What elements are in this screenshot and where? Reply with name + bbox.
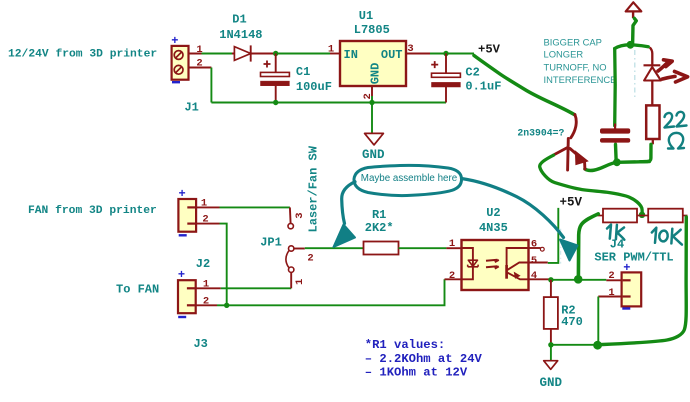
LED branch top lead	[650, 48, 653, 66]
handwritten 1k	[607, 225, 624, 240]
bubble arrowhead at R1	[334, 225, 356, 248]
capacitor (hand drawn) top lead nub	[614, 124, 616, 129]
connector J4 body	[622, 272, 642, 306]
power arrow symbol (hand circuit supply)	[626, 2, 642, 11]
svg-text:+: +	[178, 187, 185, 201]
svg-text:+: +	[171, 34, 178, 48]
U2 pin 6 stub with open circle	[529, 247, 545, 251]
wire JP1.2 to R1	[305, 247, 364, 249]
JP1 pin 1	[289, 267, 294, 288]
svg-text:+5V: +5V	[559, 195, 582, 209]
J3 pin 1 stub	[196, 287, 221, 289]
dash-dot guide line small	[560, 229, 562, 264]
J4 pin 1 stub	[598, 296, 621, 298]
wire U1 GND pin down to rail	[371, 96, 373, 103]
LED (hand drawn, pointing up)	[644, 65, 661, 80]
svg-text:U2: U2	[486, 206, 500, 220]
svg-text:+5V: +5V	[478, 43, 501, 57]
transistor emitter arrow (filled)	[576, 152, 588, 165]
J2 pin 2 stub	[196, 223, 219, 225]
svg-text:+: +	[178, 268, 185, 282]
junction U1 GND on rail	[369, 100, 374, 105]
resistor bottom lead	[652, 139, 654, 144]
U2 internal phototransistor	[507, 248, 529, 279]
capacitor C1	[261, 54, 290, 103]
svg-text:Laser/Fan SW: Laser/Fan SW	[307, 145, 321, 232]
svg-text:Maybe assemble here: Maybe assemble here	[361, 173, 458, 184]
svg-text:GND: GND	[539, 376, 562, 390]
diode D1	[232, 45, 276, 61]
dash-dot guide line	[634, 50, 636, 99]
capacitor (hand drawn) plate bottom	[600, 138, 630, 143]
junction C1 bottom on rail	[273, 100, 278, 105]
wire supply stem (hand)	[633, 18, 637, 45]
svg-text:100uF: 100uF	[296, 80, 332, 94]
wire cap bottom lead (hand)	[614, 145, 618, 163]
J2 minus mark	[179, 234, 187, 236]
svg-text:2K2*: 2K2*	[365, 221, 394, 235]
svg-text:3: 3	[294, 212, 306, 218]
JP1 pin 3	[288, 207, 293, 228]
wire J3.2 long rail to U2.2	[217, 279, 445, 305]
svg-text:2: 2	[307, 253, 313, 265]
J1 pin 1 stub	[189, 53, 212, 55]
note: BIGGER CAP LONGER TURNOFF, NO INTERFERENCE	[544, 36, 617, 84]
wire U2.5 to +5V	[548, 208, 559, 263]
bubble tail to U2/+5V area (hand)	[462, 179, 564, 238]
U2 pin 4 stub	[529, 278, 550, 280]
wire J2.2 down to J3.2 rail	[220, 224, 227, 306]
wire rail to GND symbol	[371, 103, 373, 134]
note: R1 values (blue)	[365, 338, 483, 379]
J4 pin 2 stub	[606, 279, 621, 281]
svg-text:JP1: JP1	[260, 236, 282, 250]
wire 10K right side down and around to ground rail (hand)	[601, 217, 687, 345]
connector J2 body	[178, 199, 196, 232]
J1 pin 2 stub	[189, 67, 212, 69]
resistor 1k (schematic style)	[598, 209, 649, 223]
svg-text:OUT: OUT	[381, 48, 403, 62]
wire +5V to transistor collector (hand)	[474, 56, 575, 115]
svg-text:1: 1	[294, 279, 306, 285]
svg-text:GND: GND	[369, 63, 383, 85]
U1 pin 2 stub	[371, 86, 373, 96]
transistor 2n3904 (hand drawn)	[554, 115, 585, 171]
svg-text:TURNOFF, NO: TURNOFF, NO	[544, 62, 607, 73]
capacitor C2	[431, 54, 460, 103]
junction at D1 cathode / C1 top	[273, 51, 278, 56]
svg-text:IN: IN	[344, 48, 358, 62]
resistor (hand drawn) body	[646, 105, 659, 139]
U2 pin 2 stub	[445, 278, 462, 280]
ground symbol lower	[544, 361, 558, 370]
ground symbol under U1	[365, 133, 384, 145]
svg-text:1N4148: 1N4148	[219, 28, 262, 42]
wire cap top lead (hand)	[613, 49, 617, 126]
capacitor bottom lead nub	[614, 143, 616, 146]
svg-text:J2: J2	[196, 257, 210, 271]
J3 minus mark	[178, 316, 186, 318]
svg-text:L7805: L7805	[354, 23, 390, 37]
J4 minus mark	[622, 307, 630, 309]
resistor 10K (schematic style)	[648, 209, 687, 223]
JP1 arc between pin2 and pin1	[286, 251, 289, 268]
svg-text:GND: GND	[362, 148, 385, 162]
handwritten 10K	[652, 228, 682, 245]
wire R1 to U2.1	[399, 247, 447, 249]
capacitor (hand drawn) plate top	[600, 128, 630, 133]
wire U1 OUT to +5V	[430, 53, 474, 55]
svg-text:C2: C2	[465, 66, 479, 80]
U2 pin 1 stub	[446, 247, 461, 249]
junction J3.2 rail	[224, 303, 229, 308]
wire to ground	[550, 345, 552, 361]
J1 minus mark	[172, 81, 180, 83]
junction blob at cap top	[627, 41, 635, 49]
svg-text:FAN from 3D printer: FAN from 3D printer	[28, 205, 157, 217]
LED light arrows (hand drawn)	[658, 60, 688, 82]
JP1 pin 2	[289, 246, 305, 251]
power arrow stem (red)	[632, 11, 634, 18]
U2 internal LED	[462, 248, 479, 279]
svg-text:12/24V from 3D printer: 12/24V from 3D printer	[8, 49, 157, 61]
LED to resistor lead	[651, 81, 653, 106]
wire transistor emitter to bottom rail (hand)	[585, 162, 649, 171]
U2 internal light arrows	[486, 260, 499, 269]
optocoupler U2 body	[462, 240, 529, 290]
svg-text:INTERFERENCE: INTERFERENCE	[544, 74, 617, 85]
connector J1 body	[172, 46, 189, 80]
svg-text:C1: C1	[296, 65, 310, 79]
wire D1 cathode to U1 IN	[252, 53, 330, 55]
U2 pin 5 stub	[529, 262, 548, 264]
wire U2.4 to J4.2	[550, 279, 607, 281]
svg-text:2n3904=?: 2n3904=?	[517, 128, 564, 139]
svg-text:J3: J3	[193, 337, 207, 351]
connector J3 body	[178, 280, 196, 313]
J3 pin 2 stub	[196, 304, 217, 306]
J2 pin 1 stub	[196, 206, 219, 208]
handwritten 22 ohm value	[665, 112, 687, 149]
junction blob at ground rail	[593, 341, 602, 350]
wire resistor bottom to rail (hand)	[640, 144, 651, 162]
U1 pin 1 stub	[330, 53, 340, 55]
wire transistor base to divider junction (hand)	[540, 155, 643, 215]
svg-text:D1: D1	[232, 12, 246, 26]
svg-text:R1: R1	[372, 208, 386, 222]
junction R2 bottom	[548, 342, 553, 347]
wire J2.1 to JP1.3	[220, 206, 290, 208]
annotation bubble: Maybe assemble here	[354, 165, 462, 195]
svg-text:BIGGER CAP: BIGGER CAP	[544, 36, 602, 47]
wire J4.1 down	[597, 297, 599, 342]
wire J3.1 to JP1.1	[221, 287, 291, 289]
svg-text:LONGER: LONGER	[544, 49, 584, 60]
junction blob at divider	[639, 212, 645, 218]
bubble arrowhead near +5V	[560, 240, 578, 261]
svg-text:To FAN: To FAN	[116, 283, 159, 297]
svg-text:*R1 values:: *R1 values:	[365, 338, 445, 352]
svg-text:SER PWM/TTL: SER PWM/TTL	[594, 250, 673, 264]
wire J1.1 to D1 anode	[202, 53, 233, 55]
svg-text:J1: J1	[184, 101, 198, 115]
svg-text:U1: U1	[359, 9, 373, 23]
svg-text:5: 5	[531, 255, 537, 267]
svg-text:4N35: 4N35	[479, 221, 508, 235]
regulator U1 body	[340, 41, 406, 86]
wire J1.2 down to bottom rail	[210, 68, 212, 103]
svg-text:– 2.2KOhm at 24V: – 2.2KOhm at 24V	[365, 352, 483, 366]
wire bottom rail	[211, 102, 446, 104]
resistor R1	[364, 242, 399, 255]
junction at C2 top	[443, 51, 448, 56]
wire 1k left lead down to U2.4 node (hand)	[578, 214, 598, 277]
resistor R2	[544, 280, 558, 345]
junction U2.4 / R2	[548, 277, 553, 282]
svg-text:470: 470	[561, 315, 583, 329]
junction blob bottom rail	[613, 158, 621, 166]
bubble arrow to R1 (hand)	[342, 182, 355, 224]
wire R2 bottom rail to J4.1 drop	[551, 344, 598, 346]
junction blob on U2.4 wire	[574, 275, 583, 284]
svg-text:– 1KOhm at 12V: – 1KOhm at 12V	[365, 366, 468, 380]
wire bracket over cap and LED branch (hand)	[615, 45, 649, 49]
svg-text:0.1uF: 0.1uF	[465, 80, 501, 94]
U1 pin 3 stub	[406, 53, 430, 55]
